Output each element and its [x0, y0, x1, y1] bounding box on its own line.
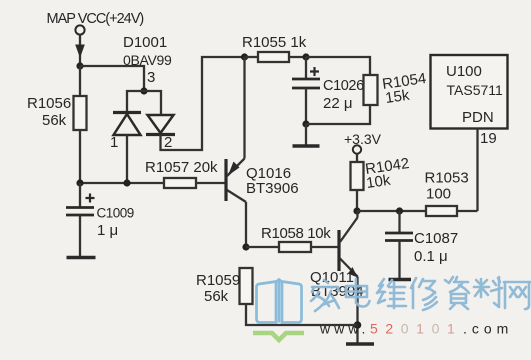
ground of Q1011 emitter	[346, 342, 374, 346]
char zi	[445, 277, 469, 309]
svg-text:2: 2	[164, 134, 172, 151]
wire diode2 cathode to R1055 left node	[161, 57, 245, 150]
node J10 junction	[396, 207, 403, 214]
wire J8 to ground	[305, 124, 307, 146]
resistor R1058 10k	[242, 225, 337, 252]
resistor R1042 10k	[351, 155, 411, 211]
svg-text:D1001: D1001	[123, 34, 167, 51]
svg-text:U100: U100	[446, 63, 482, 80]
char xiu	[411, 278, 437, 310]
svg-text:R1059: R1059	[196, 272, 240, 289]
diode D1001 pin2 (right, cathode down)	[146, 115, 175, 151]
node J8 junction (C1026 bottom / R1054 bottom)	[302, 120, 309, 127]
char dian	[346, 279, 370, 307]
svg-text:R1053: R1053	[425, 170, 469, 187]
node J9 junction	[353, 207, 360, 214]
ground of C1087	[389, 278, 412, 282]
svg-text:R1058 10k: R1058 10k	[261, 225, 331, 242]
main horizontal wire at y=183	[80, 182, 164, 184]
wire J9 to R1053	[357, 210, 426, 212]
svg-text:1 μ: 1 μ	[97, 222, 118, 239]
node emitter junction	[354, 321, 362, 329]
svg-text:.com: .com	[463, 321, 513, 337]
resistor R1053 100	[425, 170, 478, 217]
wire J1 to D1001 node 3	[80, 66, 144, 91]
svg-text:C1009: C1009	[97, 206, 134, 221]
svg-text:10k: 10k	[365, 172, 392, 192]
pin 19 of U100	[478, 129, 497, 212]
svg-text:19: 19	[480, 130, 497, 147]
node J2 junction	[76, 179, 83, 186]
char jia	[311, 280, 339, 311]
diode D1001 pin1 (left, cathode up)	[110, 113, 141, 184]
resistor R1054 15k	[306, 70, 427, 124]
svg-text:C1087: C1087	[414, 230, 458, 247]
capacitor C1009 1u	[66, 183, 134, 257]
resistor R1059 56k	[196, 268, 358, 325]
char wang	[504, 282, 530, 309]
svg-text:R1055 1k: R1055 1k	[242, 34, 307, 51]
ground of C1009	[67, 256, 96, 260]
svg-text:www.: www.	[319, 321, 369, 337]
watermark book icon	[257, 280, 302, 323]
transistor Q1011 BT3904 (NPN)	[310, 211, 364, 343]
svg-text:22 μ: 22 μ	[323, 95, 353, 112]
svg-text:520101: 520101	[370, 321, 462, 337]
svg-text:PDN: PDN	[462, 109, 494, 126]
node J4 junction	[123, 179, 130, 186]
node J5 junction (emitter / R1055 left)	[241, 53, 248, 60]
svg-text:56k: 56k	[204, 288, 229, 305]
resistor R1055 1k	[242, 34, 307, 62]
watermark url www.520101.com	[319, 321, 513, 337]
capacitor C1087 0.1u	[385, 211, 458, 279]
transistor Q1016 BT3906 (PNP)	[226, 57, 299, 247]
power terminal MAP VCC (+24V)	[47, 11, 144, 66]
node J1 junction	[76, 62, 83, 69]
svg-text:0BAV99: 0BAV99	[123, 52, 172, 68]
wire node3 spread to both diodes	[127, 91, 161, 115]
node J7 junction (R1055 right / C1026 top)	[302, 53, 309, 60]
svg-text:+3.3V: +3.3V	[344, 131, 382, 147]
svg-text:TAS5711: TAS5711	[447, 82, 504, 98]
svg-text:BT3906: BT3906	[246, 180, 299, 197]
svg-text:100: 100	[426, 186, 451, 203]
watermark chinese characters (approximated strokes)	[311, 277, 530, 311]
svg-text:C1026: C1026	[323, 78, 364, 94]
char liao	[474, 277, 502, 307]
resistor R1057 20k	[145, 159, 218, 188]
svg-text:0.1 μ: 0.1 μ	[414, 248, 448, 265]
svg-text:56k: 56k	[42, 112, 67, 129]
svg-text:1: 1	[110, 134, 118, 151]
node 3 junction of D1001	[140, 87, 147, 94]
svg-text:3: 3	[147, 69, 155, 86]
resistor R1056	[27, 66, 87, 183]
wire J7 to R1054 top	[306, 57, 370, 75]
svg-text:MAP VCC(+24V): MAP VCC(+24V)	[47, 11, 144, 27]
svg-text:15k: 15k	[384, 87, 411, 107]
+3.3V terminal	[344, 131, 382, 162]
capacitor C1026 22u	[292, 57, 364, 124]
ground of C1026	[293, 144, 320, 148]
svg-text:R1056: R1056	[27, 95, 71, 112]
IC U100 TAS5711	[431, 55, 508, 129]
char wei	[377, 279, 406, 308]
svg-text:R1057 20k: R1057 20k	[145, 159, 218, 176]
watermark book green base	[253, 333, 304, 340]
